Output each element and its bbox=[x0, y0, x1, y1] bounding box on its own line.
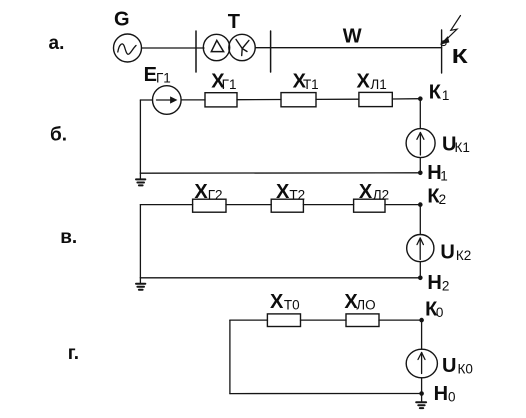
svg-text:UК0: UК0 bbox=[442, 355, 473, 377]
svg-text:ХТ0: ХТ0 bbox=[270, 291, 300, 313]
source U_K2 bbox=[407, 235, 434, 262]
resistor X_G2 bbox=[193, 199, 226, 212]
bus tick right of transformer bbox=[270, 31, 272, 72]
resistor X_T2 bbox=[271, 199, 303, 212]
svg-text:W: W bbox=[343, 25, 362, 47]
resistor X_T1 bbox=[281, 93, 316, 107]
wire line W bbox=[255, 47, 441, 49]
ground v bbox=[136, 278, 145, 290]
svg-text:К1: К1 bbox=[429, 82, 450, 104]
svg-text:Н1: Н1 bbox=[427, 162, 447, 184]
wire U_K2 to node H2 bbox=[419, 262, 421, 278]
resistor X_G1 bbox=[205, 93, 237, 107]
svg-text:в.: в. bbox=[60, 227, 77, 248]
bus tick left of transformer bbox=[195, 31, 197, 72]
svg-text:Т: Т bbox=[228, 11, 240, 33]
node H1 bbox=[418, 171, 423, 176]
wire top left v bbox=[140, 204, 192, 206]
wire left vertical g bbox=[229, 320, 231, 394]
wire X_T1 to X_L1 bbox=[316, 98, 359, 100]
source U_K0 bbox=[406, 349, 437, 378]
svg-text:Н2: Н2 bbox=[427, 272, 449, 294]
source E_G1 bbox=[153, 86, 182, 115]
svg-text:G: G bbox=[114, 9, 130, 31]
resistor X_L2 bbox=[354, 199, 385, 212]
wire U_K1 to node H1 bbox=[419, 158, 421, 173]
wire left vertical b bbox=[139, 100, 141, 173]
transformer T primary winding (delta) bbox=[203, 34, 229, 60]
svg-text:UК1: UК1 bbox=[442, 133, 470, 155]
resistor X_T0 bbox=[267, 314, 300, 327]
svg-text:ЕГ1: ЕГ1 bbox=[144, 64, 171, 86]
ground b bbox=[136, 173, 145, 185]
resistor X_L1 bbox=[359, 92, 392, 106]
svg-text:ХЛ1: ХЛ1 bbox=[357, 71, 387, 93]
svg-text:К: К bbox=[452, 45, 469, 67]
wire top left g bbox=[230, 319, 268, 321]
fault lightning arrow bbox=[441, 16, 461, 46]
svg-text:ХЛО: ХЛО bbox=[344, 291, 375, 313]
svg-text:г.: г. bbox=[68, 343, 79, 364]
wire source to left corner bbox=[140, 99, 152, 101]
bottom wire v bbox=[140, 277, 420, 279]
bottom wire b bbox=[140, 172, 420, 174]
node K2 bbox=[418, 202, 423, 207]
svg-text:К0: К0 bbox=[425, 299, 443, 321]
svg-text:Н0: Н0 bbox=[434, 383, 456, 405]
transformer T secondary winding (star) bbox=[229, 34, 255, 60]
node K1 bbox=[418, 96, 423, 101]
svg-text:ХЛ2: ХЛ2 bbox=[359, 181, 389, 203]
svg-text:а.: а. bbox=[49, 33, 65, 54]
wire X_L0 to node K0 bbox=[379, 319, 422, 321]
fault bus line bbox=[441, 30, 443, 73]
wire generator to transformer bbox=[142, 47, 205, 49]
bottom wire g bbox=[230, 393, 422, 395]
resistor X_L0 bbox=[346, 314, 379, 327]
svg-text:б.: б. bbox=[50, 125, 67, 146]
node K0 bbox=[419, 318, 424, 323]
wire X_T2 to X_L2 bbox=[303, 204, 353, 206]
wire X_G2 to X_T2 bbox=[226, 204, 271, 206]
svg-text:ХГ1: ХГ1 bbox=[211, 71, 236, 93]
svg-text:UК2: UК2 bbox=[440, 241, 471, 263]
ground g bbox=[416, 394, 426, 409]
wire X_T0 to X_L0 bbox=[301, 319, 347, 321]
wire source to X_G1 bbox=[181, 99, 205, 101]
node H0 bbox=[419, 391, 424, 396]
wire X_G1 to X_T1 bbox=[237, 99, 281, 101]
wire X_L2 to node K2 bbox=[385, 204, 420, 206]
wire K2 to U_K2 bbox=[419, 205, 421, 235]
wire left vertical v bbox=[139, 205, 141, 278]
svg-text:ХТ1: ХТ1 bbox=[293, 71, 319, 93]
svg-text:ХТ2: ХТ2 bbox=[276, 181, 305, 203]
wire K0 to U_K0 bbox=[421, 320, 423, 349]
node H2 bbox=[418, 276, 423, 281]
wire U_K0 to node H0 bbox=[421, 378, 423, 394]
svg-text:ХГ2: ХГ2 bbox=[194, 181, 222, 203]
svg-text:К2: К2 bbox=[427, 186, 446, 208]
generator G bbox=[114, 34, 142, 62]
wire X_L1 to node K1 bbox=[392, 98, 420, 100]
wire K1 to U_K1 bbox=[419, 99, 421, 129]
source U_K1 bbox=[406, 129, 435, 158]
